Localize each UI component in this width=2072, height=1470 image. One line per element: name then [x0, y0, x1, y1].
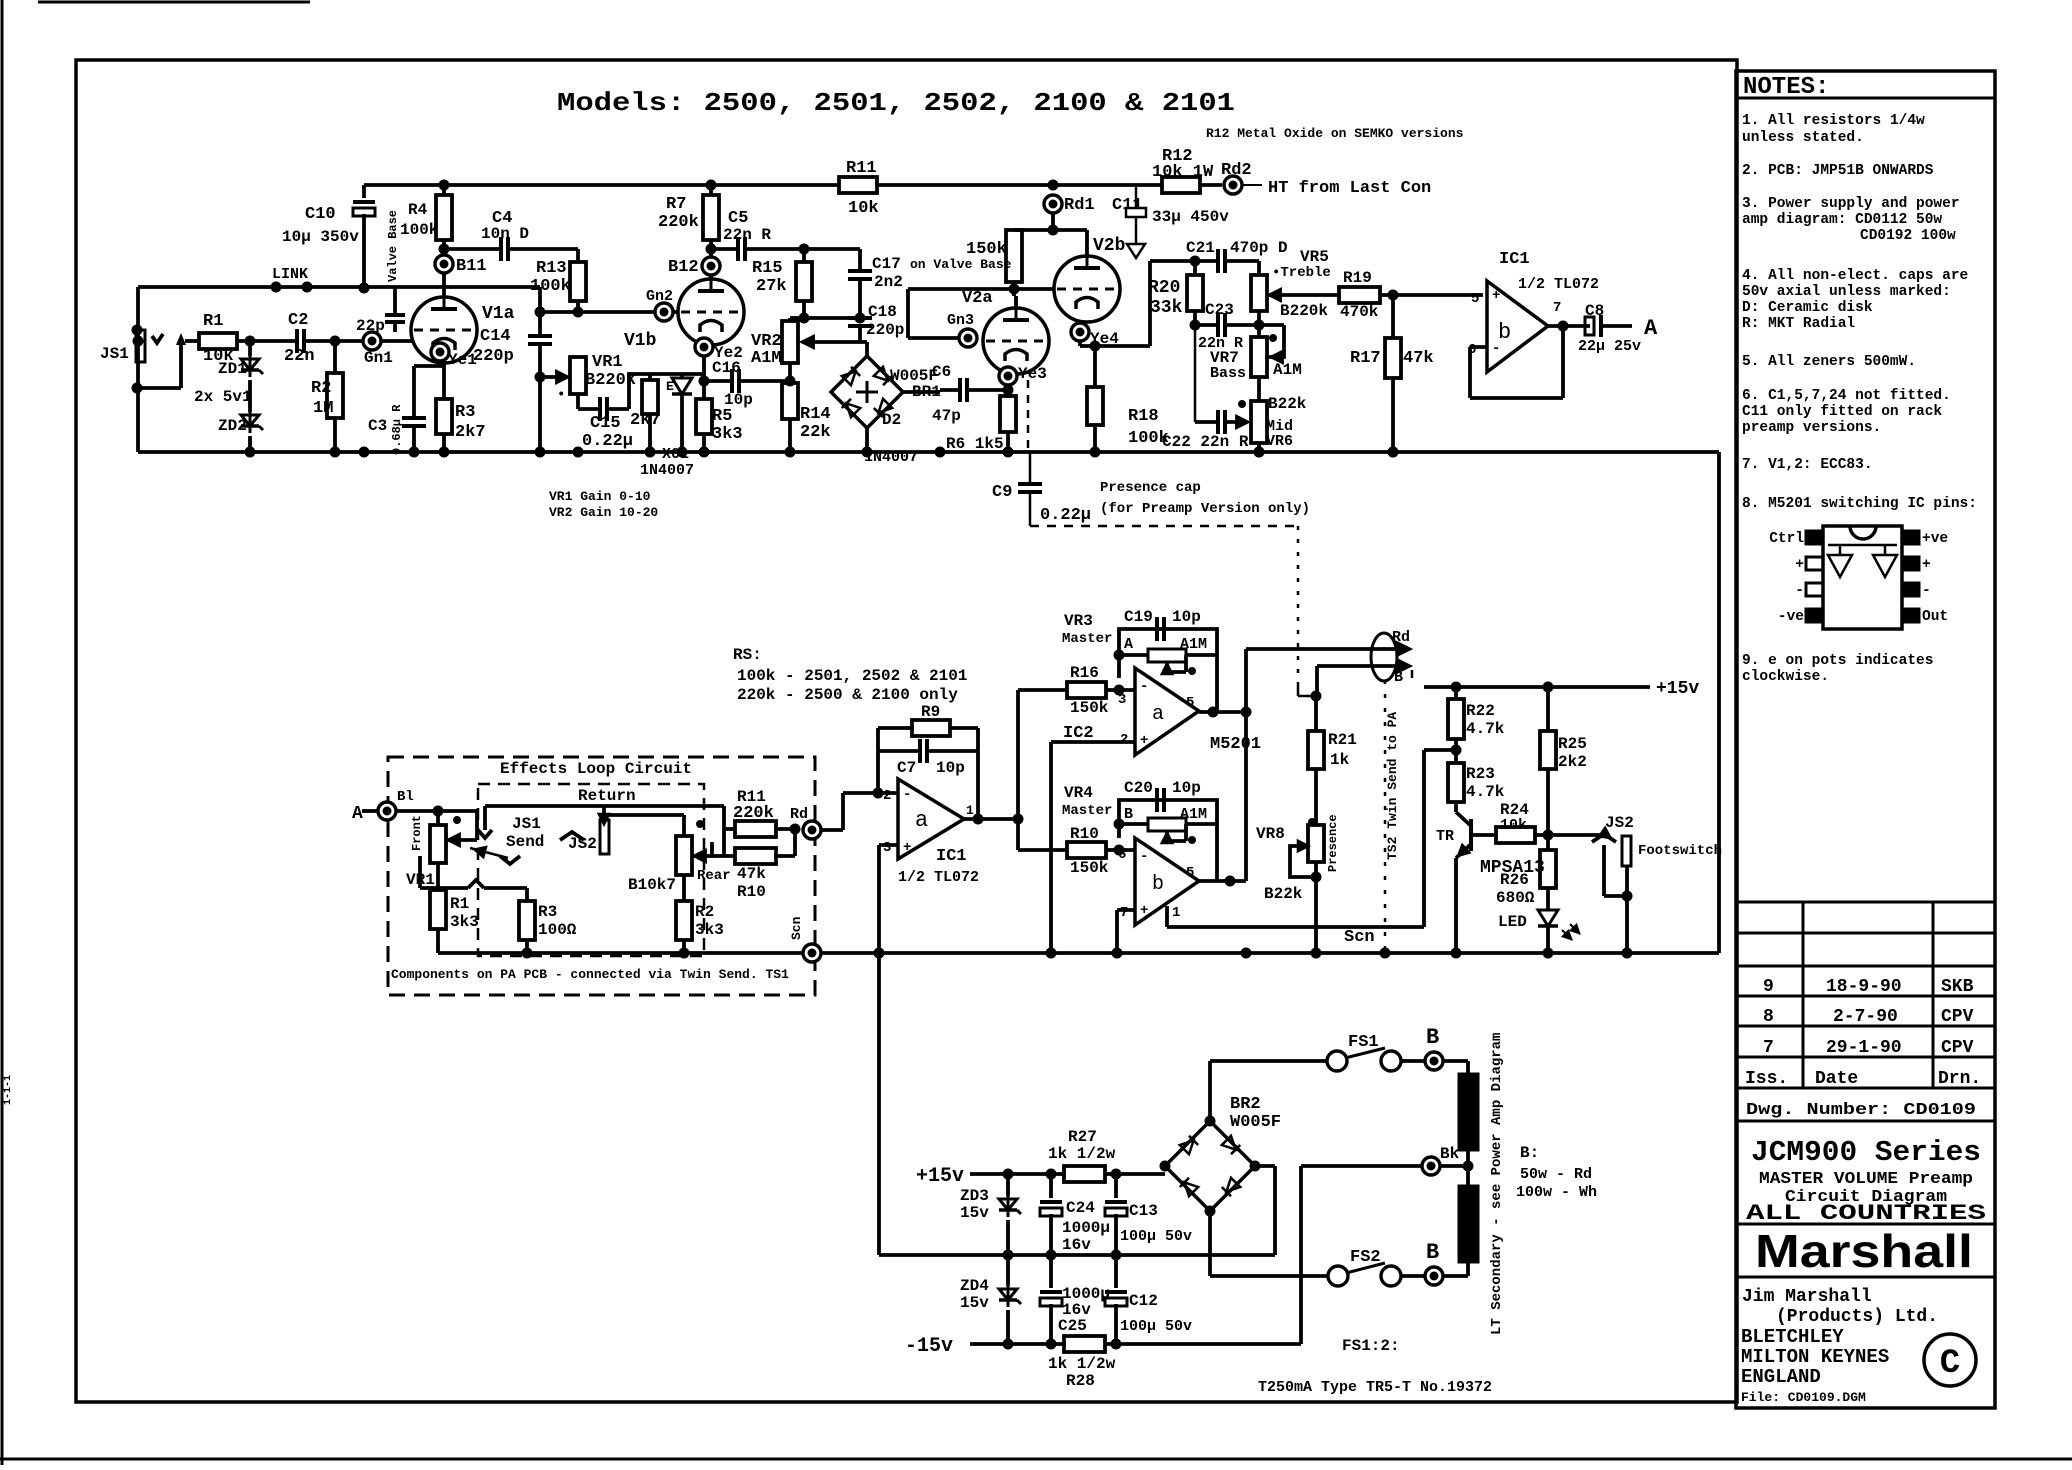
svg-text:+: + — [1795, 557, 1804, 573]
wire C2 to grid — [304, 339, 363, 343]
svg-text:Date: Date — [1815, 1069, 1858, 1089]
svg-text:R14: R14 — [800, 405, 831, 424]
svg-text:47k: 47k — [737, 865, 766, 883]
svg-text:4.7k: 4.7k — [1466, 720, 1505, 738]
resistor R3 effects 100R — [519, 901, 535, 940]
revision table — [1736, 901, 1995, 904]
bridge BR1 — [860, 340, 867, 344]
wire BR1 right to C6 row — [903, 390, 940, 394]
wire R15-C17 bottom — [790, 316, 860, 320]
wire R27 to bridge — [1105, 1172, 1165, 1176]
svg-text:V2a: V2a — [962, 289, 993, 308]
svg-text:R21: R21 — [1328, 731, 1357, 749]
svg-text:7: 7 — [1553, 300, 1561, 316]
svg-text:FS2: FS2 — [1350, 1248, 1381, 1267]
svg-text:4. All non-elect. caps are: 4. All non-elect. caps are — [1742, 268, 1968, 284]
svg-text:8. M5201 switching IC pins:: 8. M5201 switching IC pins: — [1742, 496, 1977, 512]
svg-text:15v: 15v — [960, 1294, 989, 1312]
svg-text:Return: Return — [578, 787, 636, 805]
svg-text:A: A — [1124, 636, 1133, 653]
svg-text:47k: 47k — [1403, 349, 1434, 368]
svg-text:NOTES:: NOTES: — [1743, 74, 1829, 101]
resistor R18 — [1093, 346, 1097, 387]
zener ZD3 — [1006, 1174, 1010, 1196]
capacitor C24 — [1049, 1174, 1053, 1198]
transistor TR MPSA13 — [1454, 802, 1458, 812]
svg-text:unless stated.: unless stated. — [1742, 130, 1864, 146]
svg-text:R16: R16 — [1070, 664, 1099, 682]
svg-text:HT from Last Con: HT from Last Con — [1268, 179, 1431, 198]
svg-text:R28: R28 — [1066, 1372, 1095, 1390]
svg-text:TS2 Twin Send to PA: TS2 Twin Send to PA — [1385, 712, 1400, 860]
svg-text:-: - — [903, 787, 911, 803]
zener ZD1 — [248, 341, 252, 356]
svg-text:+15v: +15v — [916, 1165, 964, 1188]
svg-text:Bl: Bl — [397, 789, 414, 805]
svg-text:R5: R5 — [712, 407, 732, 426]
resistor R19 — [1282, 293, 1339, 297]
svg-text:470k: 470k — [1340, 303, 1379, 321]
svg-text:C3: C3 — [368, 417, 387, 435]
svg-text:18-9-90: 18-9-90 — [1826, 977, 1902, 997]
node B upper — [1401, 1059, 1425, 1063]
svg-text:1M: 1M — [313, 399, 333, 418]
capacitor C18 — [848, 316, 872, 320]
svg-text:LT Secondary - see Power Amp D: LT Secondary - see Power Amp Diagram — [1489, 1033, 1505, 1335]
svg-text:C21: C21 — [1186, 239, 1215, 257]
pot VR1 effects (front) — [436, 811, 440, 825]
capacitor C4 — [444, 247, 501, 251]
svg-text:C16: C16 — [712, 359, 741, 377]
svg-text:29-1-90: 29-1-90 — [1826, 1038, 1902, 1058]
svg-text:7. V1,2: ECC83.: 7. V1,2: ECC83. — [1742, 457, 1873, 473]
opamp IC2b — [1135, 838, 1199, 925]
wire return line — [609, 813, 684, 817]
svg-text:-: - — [1140, 849, 1148, 865]
svg-text:1/2 TL072: 1/2 TL072 — [898, 869, 979, 886]
svg-text:3k3: 3k3 — [695, 921, 724, 939]
dashed TS2 twin send line — [1384, 680, 1387, 953]
transformer winding upper — [1459, 1074, 1478, 1150]
svg-text:R3: R3 — [538, 903, 557, 921]
notes panel box — [1736, 71, 1995, 1408]
svg-text:16v: 16v — [1062, 1236, 1091, 1254]
resistor R2 effects 3k3 — [682, 875, 686, 901]
svg-text:a: a — [1152, 703, 1164, 726]
svg-text:1/2 TL072: 1/2 TL072 — [1518, 276, 1599, 293]
wire B to winding top — [1443, 1059, 1468, 1063]
resistor R11 — [839, 177, 877, 193]
svg-text:Front: Front — [410, 815, 424, 851]
svg-text:R25: R25 — [1558, 735, 1587, 753]
NOTES title box — [1736, 97, 1995, 100]
wire V1b cathode node — [629, 372, 704, 376]
svg-text:0.22µ: 0.22µ — [582, 432, 633, 451]
svg-text:C24: C24 — [1066, 1199, 1095, 1217]
svg-text:+ve: +ve — [1922, 531, 1948, 547]
svg-text:1k 1/2w: 1k 1/2w — [1048, 1145, 1116, 1163]
svg-text:7: 7 — [1120, 905, 1128, 921]
wire output bus vertical — [1244, 649, 1248, 881]
svg-text:VR2 Gain 10-20: VR2 Gain 10-20 — [549, 505, 658, 520]
capacitor C14 — [538, 312, 542, 336]
wire R1 to C2 — [237, 339, 297, 343]
wire BR1 bottom to bus — [865, 428, 869, 452]
wire +15v rail middle — [1424, 685, 1650, 689]
svg-text:A1M: A1M — [751, 349, 782, 368]
svg-text:IC1: IC1 — [1499, 250, 1530, 269]
svg-text:33k: 33k — [1150, 298, 1183, 318]
svg-text:T250mA Type TR5-T No.19372: T250mA Type TR5-T No.19372 — [1258, 1379, 1492, 1396]
svg-text:10µ 350v: 10µ 350v — [282, 228, 359, 246]
wire IC1a pin3 ground — [879, 843, 898, 847]
svg-text:22k: 22k — [800, 423, 831, 442]
page outer border — [1, 0, 4, 1465]
svg-text:-: - — [1922, 583, 1931, 599]
svg-text:B:: B: — [1520, 1144, 1539, 1162]
svg-text:C13: C13 — [1129, 1202, 1158, 1220]
resistor R16 — [1067, 682, 1106, 698]
resistor 2k7 V1b cathode — [648, 374, 652, 380]
wire right side drop — [1717, 452, 1721, 953]
svg-text:R17: R17 — [1350, 349, 1381, 368]
svg-text:Footswitch: Footswitch — [1638, 843, 1722, 859]
capacitor C21 — [1195, 259, 1218, 263]
fuse FS1 — [1327, 1051, 1347, 1071]
capacitor C2 — [295, 329, 299, 353]
resistor R3 — [442, 361, 446, 399]
pot VR3 block — [1119, 629, 1217, 702]
svg-text:B22k: B22k — [1268, 395, 1307, 413]
svg-text:Scn: Scn — [1344, 928, 1375, 947]
svg-text:preamp versions.: preamp versions. — [1742, 420, 1881, 436]
svg-text:ZD4: ZD4 — [960, 1277, 989, 1295]
svg-text:-: - — [1795, 583, 1804, 599]
svg-text:on Valve Base: on Valve Base — [910, 257, 1012, 272]
node Bk centre tap — [1466, 1150, 1470, 1186]
svg-text:1: 1 — [966, 803, 974, 818]
svg-text:C12: C12 — [1129, 1292, 1158, 1310]
capacitor C15 — [576, 394, 580, 409]
svg-text:-15v: -15v — [905, 1335, 953, 1358]
wire IC2a output — [1199, 710, 1246, 714]
wire IC2b output — [1199, 879, 1246, 883]
svg-text:+: + — [1140, 733, 1148, 749]
svg-text:•: • — [557, 387, 565, 403]
svg-text:R11: R11 — [846, 159, 877, 178]
wire VR8 to Scn bus — [1314, 862, 1318, 953]
resistor R6 — [1000, 396, 1016, 432]
svg-text:7: 7 — [1763, 1038, 1774, 1058]
svg-text:D: Ceramic disk: D: Ceramic disk — [1742, 300, 1873, 316]
LED — [1546, 888, 1550, 910]
svg-text:1-1-1: 1-1-1 — [3, 1075, 14, 1105]
wire Scn bus middle — [821, 951, 1719, 955]
svg-text:22n: 22n — [284, 347, 315, 366]
svg-text:Ctrl: Ctrl — [1769, 531, 1804, 547]
svg-text:Ye1: Ye1 — [448, 351, 477, 369]
svg-text:A1M: A1M — [1180, 806, 1207, 823]
svg-text:VR3: VR3 — [1064, 612, 1093, 630]
svg-text:JS1: JS1 — [100, 345, 129, 363]
svg-text:+: + — [1922, 557, 1931, 573]
tube V2b — [1054, 256, 1120, 322]
svg-text:Rd2: Rd2 — [1221, 161, 1252, 180]
wire R20 bottom to C22 — [1194, 325, 1197, 422]
resistor R12 — [1162, 177, 1200, 193]
svg-text:C15: C15 — [590, 414, 621, 433]
svg-text:A: A — [352, 804, 363, 824]
svg-text:C18: C18 — [868, 303, 897, 321]
svg-text:•Treble: •Treble — [1272, 265, 1331, 281]
svg-text:C: C — [1940, 1345, 1960, 1383]
svg-text:+15v: +15v — [1656, 679, 1699, 699]
feedback loop IC1b — [1548, 324, 1590, 328]
svg-text:C2: C2 — [288, 311, 308, 330]
svg-text:M5201: M5201 — [1210, 735, 1261, 754]
fuse FS2 — [1328, 1266, 1348, 1286]
svg-text:15v: 15v — [960, 1204, 989, 1222]
svg-text:Master: Master — [1062, 803, 1112, 819]
wire input to R1 — [185, 339, 199, 343]
svg-text:C17: C17 — [872, 255, 901, 273]
svg-text:100µ 50v: 100µ 50v — [1120, 1228, 1192, 1245]
svg-text:Scn: Scn — [789, 916, 804, 940]
svg-text:3k3: 3k3 — [450, 913, 479, 931]
diode X01 1N4007 — [680, 374, 684, 378]
wire send normal contact — [418, 856, 422, 888]
svg-text:ZD3: ZD3 — [960, 1187, 989, 1205]
node Ye1 — [431, 343, 449, 361]
svg-text:C23: C23 — [1205, 301, 1234, 319]
svg-text:10k: 10k — [848, 199, 879, 218]
svg-text:R22: R22 — [1466, 702, 1495, 720]
svg-text:150k: 150k — [1070, 859, 1109, 877]
svg-text:100k: 100k — [400, 221, 439, 239]
node Gn2 — [655, 303, 673, 321]
dashed presence feed from Ye3 — [1027, 380, 1030, 452]
svg-text:R2: R2 — [695, 903, 714, 921]
svg-text:Rear: Rear — [697, 868, 731, 884]
wire IC2b pin1 to TR network — [1165, 906, 1169, 927]
wire V2a plate to V2b grid — [908, 287, 1054, 291]
svg-text:C6: C6 — [932, 363, 951, 381]
svg-text:100Ω: 100Ω — [538, 921, 577, 939]
svg-text:Presence cap: Presence cap — [1100, 480, 1201, 496]
svg-text:680Ω: 680Ω — [1496, 889, 1535, 907]
svg-text:ZD1: ZD1 — [218, 360, 247, 378]
svg-text:R27: R27 — [1068, 1128, 1097, 1146]
svg-text:100µ 50v: 100µ 50v — [1120, 1318, 1192, 1335]
pot VR1 — [540, 375, 566, 379]
svg-text:C19: C19 — [1124, 608, 1153, 626]
pot B10k7 rear — [682, 815, 686, 836]
svg-text:2: 2 — [1120, 732, 1128, 748]
svg-text:SKB: SKB — [1941, 977, 1974, 997]
svg-text:C11: C11 — [1112, 196, 1143, 215]
svg-text:b: b — [1152, 873, 1164, 896]
svg-text:V1b: V1b — [624, 331, 656, 351]
resistor R9 feedback — [876, 728, 880, 793]
svg-text:V2b: V2b — [1093, 236, 1125, 256]
svg-text:R9: R9 — [921, 703, 940, 721]
svg-text:Marshall: Marshall — [1755, 1225, 1973, 1277]
wire Rd to IC1a pin2 — [821, 828, 843, 832]
svg-text:C25: C25 — [1058, 1317, 1087, 1335]
wire A to VR1 pot — [396, 809, 477, 813]
svg-text:V1a: V1a — [482, 304, 515, 324]
svg-text:Master: Master — [1062, 631, 1112, 647]
wire jack tip drop — [179, 345, 183, 388]
svg-text:50v axial unless marked:: 50v axial unless marked: — [1742, 284, 1951, 300]
node R22/R23 junction — [1454, 739, 1458, 763]
wire footswitch — [1548, 833, 1606, 837]
svg-text:47p: 47p — [932, 407, 961, 425]
svg-text:VR6: VR6 — [1266, 433, 1293, 450]
twin send oval — [1371, 633, 1397, 681]
svg-text:JS1: JS1 — [512, 815, 541, 833]
bridge BR2 — [1165, 1121, 1255, 1211]
node B11 anode V1a — [442, 240, 446, 297]
svg-text:2k2: 2k2 — [1558, 753, 1587, 771]
svg-text:Models: 2500, 2501, 2502, 2100: Models: 2500, 2501, 2502, 2100 & 2101 — [557, 88, 1235, 118]
node Ye3 — [999, 367, 1017, 385]
zener ZD4 — [1006, 1255, 1010, 1286]
svg-text:VR8: VR8 — [1256, 825, 1285, 843]
wire C4 to R13 — [508, 247, 578, 251]
resistor R1 — [199, 333, 237, 349]
svg-text:2k7: 2k7 — [455, 423, 486, 442]
tube V1b — [678, 279, 744, 345]
resistor R28 — [1064, 1336, 1105, 1352]
resistor R4 — [442, 185, 446, 195]
capacitor C5 — [711, 247, 738, 251]
svg-text:VR5: VR5 — [1300, 248, 1329, 266]
svg-text:9. e on pots indicates: 9. e on pots indicates — [1742, 653, 1933, 669]
schematic frame — [76, 60, 1737, 1402]
svg-text:R12 Metal Oxide on SEMKO versi: R12 Metal Oxide on SEMKO versions — [1206, 126, 1464, 141]
svg-text:1. All resistors 1/4w: 1. All resistors 1/4w — [1742, 113, 1925, 129]
transformer winding lower — [1459, 1186, 1478, 1262]
svg-text:R3: R3 — [455, 403, 475, 422]
svg-text:+: + — [903, 840, 911, 856]
svg-text:R10: R10 — [737, 883, 766, 901]
svg-text:R15: R15 — [752, 259, 783, 278]
resistor R23 — [1448, 763, 1464, 802]
svg-text:3k3: 3k3 — [712, 425, 743, 444]
capacitor C25 — [1049, 1255, 1053, 1288]
svg-text:LED: LED — [1498, 913, 1527, 931]
svg-text:R18: R18 — [1128, 407, 1159, 426]
label HT from Last Con — [1242, 184, 1262, 186]
svg-text:Bk: Bk — [1440, 1145, 1460, 1163]
resistor R11 effects 220k — [722, 806, 726, 855]
svg-text:Rd1: Rd1 — [1064, 196, 1095, 215]
copyright symbol — [1924, 1334, 1976, 1386]
svg-text:4.7k: 4.7k — [1466, 783, 1505, 801]
node Scn effects — [803, 944, 821, 962]
svg-text:2. PCB: JMP51B ONWARDS: 2. PCB: JMP51B ONWARDS — [1742, 163, 1934, 179]
svg-text:220k: 220k — [658, 213, 699, 232]
svg-text:22µ 25v: 22µ 25v — [1578, 338, 1641, 355]
svg-text:a: a — [915, 808, 928, 833]
svg-text:Presence: Presence — [1326, 814, 1340, 872]
svg-text:C11 only fitted on rack: C11 only fitted on rack — [1742, 404, 1942, 420]
node Gn1 — [363, 332, 381, 350]
node Rd1 — [1048, 180, 1059, 191]
svg-text:220p: 220p — [473, 347, 514, 366]
svg-text:10k 1W: 10k 1W — [1152, 163, 1214, 182]
svg-text:10p: 10p — [936, 759, 965, 777]
svg-text:ENGLAND: ENGLAND — [1741, 1366, 1821, 1388]
tube V1a — [411, 297, 477, 363]
wire ground bus top section — [138, 450, 1719, 454]
resistor R5 — [702, 381, 706, 399]
node B lower — [1401, 1274, 1425, 1278]
svg-text:CPV: CPV — [1941, 1038, 1974, 1058]
capacitor C23 — [1193, 311, 1197, 325]
svg-text:1: 1 — [1172, 905, 1180, 921]
wire to R16 — [1018, 688, 1067, 692]
capacitor C17 — [858, 249, 862, 271]
svg-text:B: B — [1426, 1240, 1439, 1265]
svg-text:B11: B11 — [456, 257, 487, 276]
svg-text:ZD2: ZD2 — [218, 417, 247, 435]
pot VR4 block — [1119, 800, 1217, 868]
svg-text:B: B — [1426, 1025, 1439, 1050]
capacitor C22 — [1195, 420, 1218, 424]
svg-text:150k: 150k — [1070, 699, 1109, 717]
svg-text:2-7-90: 2-7-90 — [1833, 1007, 1898, 1027]
svg-text:Jim Marshall: Jim Marshall — [1742, 1287, 1872, 1307]
svg-text:6: 6 — [1118, 847, 1126, 863]
svg-text:Effects Loop Circuit: Effects Loop Circuit — [500, 760, 692, 778]
svg-text:B: B — [1124, 806, 1133, 823]
svg-text:100k - 2501, 2502 & 2101: 100k - 2501, 2502 & 2101 — [737, 667, 967, 685]
svg-text:100w - Wh: 100w - Wh — [1516, 1184, 1597, 1201]
wire IC2a pin2 to Scn — [1051, 740, 1135, 744]
svg-text:Gn2: Gn2 — [646, 288, 673, 305]
capacitor C10 — [362, 185, 366, 198]
wire IC2b pin7 to Scn — [1117, 908, 1135, 912]
M5201 IC pin diagram U-chip — [1823, 526, 1902, 629]
pot VR2 — [788, 318, 792, 321]
wire V1b grid line — [538, 287, 542, 312]
wire BR2 bottom to FS2 — [1208, 1211, 1212, 1276]
svg-text:BR2: BR2 — [1230, 1095, 1261, 1114]
wire 0v feed from ground — [879, 1253, 1275, 1257]
svg-text:2x 5v1: 2x 5v1 — [194, 388, 252, 406]
svg-text:amp diagram: CD0112 50w: amp diagram: CD0112 50w — [1742, 212, 1942, 228]
pot VR7 bass — [1257, 311, 1261, 337]
svg-text:Valve Base: Valve Base — [386, 210, 400, 282]
svg-text:R1: R1 — [450, 895, 469, 913]
svg-text:Rd: Rd — [790, 806, 808, 823]
svg-text:File: CD0109.DGM: File: CD0109.DGM — [1741, 1390, 1866, 1405]
svg-text:R26: R26 — [1500, 871, 1529, 889]
capacitor C3 — [442, 363, 446, 366]
svg-text:A1M: A1M — [1273, 361, 1302, 379]
svg-text:Drn.: Drn. — [1938, 1069, 1981, 1089]
wire to twin send B — [1317, 664, 1404, 668]
capacitor C8 — [1585, 317, 1594, 335]
svg-text:100k: 100k — [530, 277, 571, 296]
svg-text:Iss.: Iss. — [1745, 1069, 1788, 1089]
resistor 150k on valve base — [1006, 230, 1022, 282]
svg-text:JS2: JS2 — [1605, 814, 1634, 832]
resistor R1 effects 3k3 — [436, 863, 440, 890]
resistor R26 — [1546, 835, 1550, 850]
